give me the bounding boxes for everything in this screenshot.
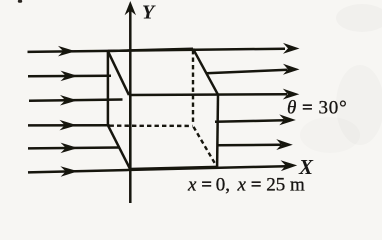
cube top-back edge (collinear with field line 1) [108, 49, 193, 51]
field line 2 right segment [207, 70, 288, 73]
field line 4 right segment [215, 120, 284, 122]
svg-text:θ = 30°: θ = 30° [287, 97, 348, 118]
arrowhead on field line 5 (left) [61, 143, 79, 154]
end arrowhead field line 4 (right) [279, 114, 296, 125]
field line 3 right segment / cube front-top edge [129, 93, 287, 96]
field line 5 right segment [218, 144, 281, 147]
cube bottom-left receding edge [108, 125, 130, 169]
cube bottom-right receding edge (hidden, dashed) [194, 127, 216, 165]
cube front-right vertical edge [216, 95, 219, 167]
cube top-left receding edge [108, 51, 129, 95]
field line 4 left segment [28, 124, 110, 127]
end arrowhead field line 1 (right) [283, 43, 300, 54]
arrowhead on field line 6 (left) [60, 166, 78, 177]
cube back-left vertical edge [107, 51, 110, 125]
faint scan smudges [336, 4, 382, 32]
cube front-left vertical edge (collinear with Y axis) [129, 95, 132, 169]
field line 5 left segment [28, 146, 120, 149]
end arrowhead field line 3 (right) [283, 89, 300, 100]
svg-text:x = 0,x = 25 m: x = 0,x = 25 m [187, 174, 305, 195]
arrowhead on field line 4 (left) [60, 120, 78, 131]
arrowhead on field line 1 (left) [58, 46, 76, 57]
field line 1 (top, collinear with cube top-back edge) [28, 49, 286, 52]
end arrowhead field line 2 (right) [283, 64, 300, 75]
field line 2 left segment [28, 75, 111, 78]
svg-text:Y: Y [142, 2, 156, 24]
cube back-right vertical edge (hidden, dashed) [192, 50, 194, 125]
field line 6 / X axis line [28, 166, 286, 172]
cube top-right receding edge [193, 49, 218, 95]
end arrowhead field line 5 (right) [276, 139, 293, 150]
arrowhead on field line 3 (left) [60, 95, 78, 106]
field line 3 left segment [29, 100, 123, 101]
ink dot top-left [18, 0, 22, 3]
Y axis arrowhead [125, 1, 136, 15]
cube back-bottom edge (hidden, dashed) [110, 124, 193, 127]
cube front-bottom edge (collinear with X axis) [130, 167, 217, 169]
arrowhead on field line 2 (left) [61, 71, 79, 82]
X axis arrowhead [281, 160, 298, 171]
Y axis [129, 9, 132, 203]
